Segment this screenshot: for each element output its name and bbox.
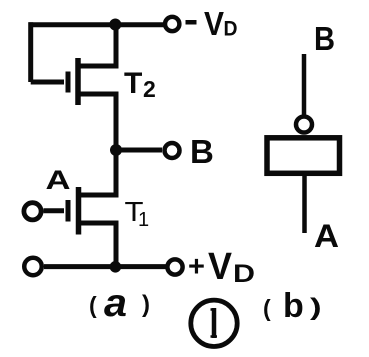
svg-text:2: 2 — [143, 76, 156, 102]
label T1 — [125, 196, 150, 231]
wire left vertical (T2 gate feedback) — [28, 22, 33, 82]
svg-text:D: D — [224, 18, 238, 41]
label (a) — [89, 282, 150, 325]
wire T2 drain to top rail — [80, 27, 116, 67]
label +VD — [188, 246, 255, 288]
svg-text:b: b — [283, 287, 304, 325]
label -VD — [186, 5, 238, 42]
terminal +VD circle — [167, 259, 182, 274]
svg-text:+: + — [188, 251, 205, 283]
svg-text:(: ( — [263, 295, 271, 321]
wire T1 gate lead — [44, 208, 65, 213]
label T2 — [124, 67, 156, 102]
node junction top rail — [109, 19, 121, 31]
node junction bottom rail — [110, 261, 122, 273]
svg-text:a: a — [104, 282, 127, 325]
wire T2 source down to node B — [80, 94, 116, 150]
symbol body box — [267, 138, 340, 174]
svg-text:): ) — [142, 291, 150, 318]
wire T1 source down to bottom rail — [80, 223, 116, 267]
svg-text:(: ( — [89, 292, 97, 318]
terminal -VD circle — [165, 17, 179, 31]
wire symbol top lead — [302, 54, 307, 116]
terminal A circle — [24, 203, 41, 220]
wire bottom horizontal rail — [44, 264, 166, 269]
svg-text:): ) — [310, 294, 322, 320]
wire T2 gate lead — [31, 80, 64, 85]
svg-text:V: V — [204, 5, 224, 42]
wire top horizontal rail — [29, 22, 164, 27]
figure number circled 1 — [191, 300, 237, 346]
wire node B down to T1 drain — [80, 150, 116, 195]
svg-text:A: A — [46, 165, 71, 195]
wire symbol bottom lead — [302, 176, 307, 233]
svg-text:1: 1 — [138, 209, 149, 231]
label (b) — [263, 287, 322, 325]
svg-text:T: T — [124, 67, 142, 100]
transistor T1 — [68, 187, 79, 235]
svg-text:A: A — [314, 218, 339, 254]
wire node B to terminal — [116, 148, 162, 153]
svg-text:V: V — [208, 246, 233, 288]
svg-text:B: B — [314, 20, 335, 57]
node B junction — [110, 144, 122, 156]
svg-text:B: B — [190, 133, 214, 170]
svg-text:D: D — [233, 260, 255, 288]
transistor T2 — [68, 58, 78, 105]
inversion bubble — [296, 117, 312, 133]
terminal bottom-left circle — [24, 258, 42, 276]
terminal B circle — [165, 143, 180, 158]
